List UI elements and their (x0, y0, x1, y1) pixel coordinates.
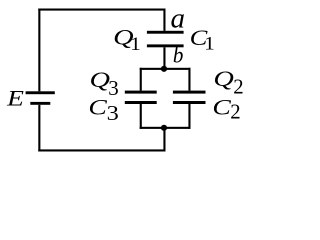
battery E bottom plate (30, 102, 50, 105)
wire bottom node horizontal (140, 127, 191, 129)
wire C1 to node b (163, 47, 165, 70)
svg-text:1: 1 (204, 34, 215, 55)
wire node b down to C3 (140, 68, 142, 91)
capacitor C3 bottom plate (125, 101, 157, 104)
wire C3 to bottom node (140, 104, 142, 129)
capacitor C3 top plate (125, 91, 157, 94)
svg-text:a: a (171, 3, 186, 35)
wire right vertical node a to C1 (163, 9, 165, 31)
svg-text:3: 3 (108, 76, 119, 100)
wire node b down to C2 (188, 68, 190, 91)
svg-text:3: 3 (107, 101, 119, 125)
junction dot node b (161, 66, 167, 72)
wire node b horizontal (140, 68, 191, 70)
svg-text:1: 1 (130, 34, 141, 55)
junction dot bottom node (161, 125, 167, 131)
wire bottom (38, 149, 165, 151)
capacitor C1 bottom plate (147, 44, 184, 47)
svg-text:Q: Q (90, 67, 111, 92)
capacitor C2 top plate (173, 91, 206, 94)
battery E top plate (26, 91, 55, 94)
svg-text:C: C (212, 95, 232, 120)
wire left vertical upper (38, 9, 40, 92)
svg-text:Q: Q (213, 66, 234, 91)
svg-text:2: 2 (230, 100, 240, 123)
wire bottom node down to bottom wire (163, 128, 165, 152)
svg-text:b: b (173, 43, 184, 68)
wire left vertical lower (38, 105, 40, 152)
wire C2 to bottom node (188, 104, 190, 129)
wire top (38, 9, 165, 11)
svg-text:E: E (6, 85, 24, 110)
svg-text:2: 2 (233, 76, 243, 99)
capacitor C1 top plate (147, 31, 184, 34)
capacitor C2 bottom plate (173, 101, 206, 104)
svg-text:C: C (88, 95, 108, 120)
